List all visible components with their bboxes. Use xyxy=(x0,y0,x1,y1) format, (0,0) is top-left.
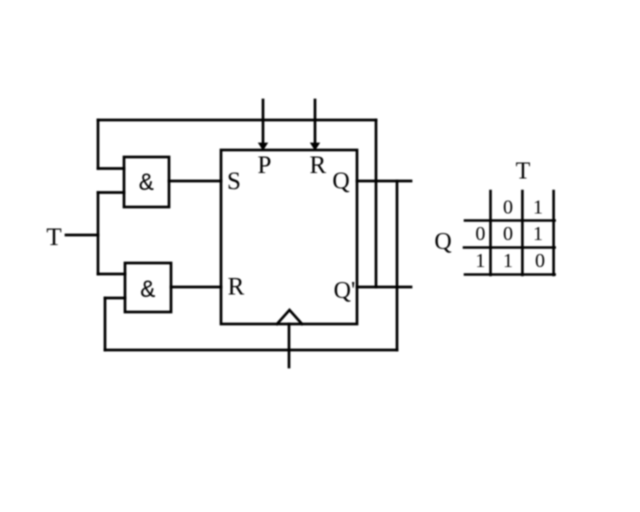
svg-text:0: 0 xyxy=(503,197,513,219)
svg-text:0: 0 xyxy=(535,250,545,272)
wire: clock input vertical xyxy=(288,324,291,367)
svg-text:&: & xyxy=(139,169,154,198)
svg-text:&: & xyxy=(140,276,155,305)
svg-text:1: 1 xyxy=(503,250,513,272)
arrowhead: R input xyxy=(310,143,320,151)
wire: left vertical from AND2 input down to bottom feedback xyxy=(104,298,107,350)
wire: AND1 output to S xyxy=(169,180,221,183)
wire: R clear input vertical xyxy=(314,100,317,144)
svg-text:T: T xyxy=(516,159,531,185)
wire: Q' output xyxy=(357,286,411,289)
wire: left vertical from top feedback down to AND1 input xyxy=(97,120,100,169)
table vertical line 1 xyxy=(489,191,492,275)
table horizontal line 1 xyxy=(465,219,555,222)
wire: P preset input vertical xyxy=(262,100,265,144)
arrowhead: P input xyxy=(258,143,268,151)
table vertical line 2 xyxy=(521,191,524,275)
svg-text:0: 0 xyxy=(503,223,513,245)
clock edge triangle xyxy=(277,310,302,324)
wire: AND2 upper input stub from T xyxy=(98,273,125,276)
table horizontal line 3 xyxy=(465,273,555,276)
svg-text:Q': Q' xyxy=(334,278,356,304)
svg-text:1: 1 xyxy=(475,250,485,272)
svg-text:1: 1 xyxy=(533,197,543,219)
wire: T input vertical xyxy=(97,193,100,275)
truth table grid lines xyxy=(464,191,555,275)
svg-text:P: P xyxy=(257,152,271,179)
svg-text:S: S xyxy=(227,168,241,195)
wire: Q' feedback top horizontal xyxy=(98,119,376,122)
wire: Q feedback bottom horizontal xyxy=(105,349,397,352)
svg-text:Q: Q xyxy=(434,229,451,255)
wire: AND1 lower input stub from T xyxy=(98,191,124,194)
wire: AND1 upper input stub xyxy=(98,167,124,170)
wire: T input horizontal xyxy=(66,234,98,237)
AND gate U2 box xyxy=(125,263,171,312)
svg-text:R: R xyxy=(309,152,326,179)
wire: Q output xyxy=(357,180,411,183)
wire: right vertical from Q wire down to bottom feedback xyxy=(396,181,399,350)
SR flip-flop U3 box xyxy=(221,150,357,324)
table horizontal line 2 xyxy=(464,246,555,249)
svg-text:Q: Q xyxy=(332,169,349,195)
svg-text:T: T xyxy=(46,224,61,251)
AND gate U1 box xyxy=(124,157,169,207)
svg-text:0: 0 xyxy=(475,223,485,245)
wire: right vertical from top feedback down to Q' wire xyxy=(375,120,378,287)
svg-text:R: R xyxy=(228,274,245,301)
table vertical line 3 xyxy=(552,191,555,275)
wire: AND2 output to R xyxy=(171,286,221,289)
svg-text:1: 1 xyxy=(533,223,543,245)
wire: AND2 lower input stub xyxy=(105,297,125,300)
